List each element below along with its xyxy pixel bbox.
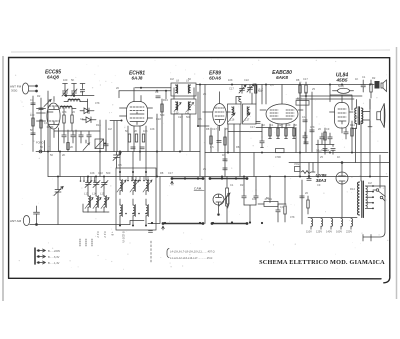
wire top bus upper [135, 85, 374, 88]
tube U2 ECH81 envelope [127, 102, 148, 127]
IF transformer T1 upper can [171, 79, 196, 97]
component value annotations [30, 75, 376, 219]
svg-text:C17: C17 [212, 127, 217, 131]
svg-text:C9: C9 [326, 127, 330, 131]
capacitor C32 [328, 133, 332, 144]
capacitor C27 [140, 147, 144, 149]
oscillator coil L14 [93, 196, 101, 213]
node dots mid bus [47, 151, 353, 154]
resistor R23 [142, 134, 144, 142]
svg-text:C17: C17 [168, 171, 173, 175]
tuning capacitor CV1 [54, 177, 63, 225]
capacitor C15 [361, 80, 365, 92]
svg-text:C1: C1 [270, 123, 274, 127]
svg-text:L1-L2-L12-L16-L13-L17.........: L1-L2-L12-L16-L13-L17.............15 Ω [170, 256, 212, 260]
svg-text:300Ω: 300Ω [11, 89, 17, 93]
node dots ground bus [57, 176, 371, 180]
capacitor C17 [310, 130, 314, 132]
svg-text:50Ω: 50Ω [297, 97, 302, 101]
svg-text:38A3: 38A3 [316, 178, 327, 183]
resistor R2 [40, 120, 42, 128]
resistor R5 [161, 104, 163, 112]
wire verticals right section [300, 85, 380, 189]
wire osc bottom rail [83, 204, 109, 212]
svg-text:R2: R2 [37, 94, 41, 98]
svg-text:B......6,3V: B......6,3V [48, 255, 60, 259]
resistor R8 [269, 128, 271, 136]
svg-text:0,1: 0,1 [280, 205, 284, 209]
wire bus ground [48, 176, 388, 178]
svg-text:C17: C17 [303, 77, 308, 81]
svg-text:47K: 47K [62, 110, 67, 114]
wire coil drops [72, 99, 88, 113]
tube U5 UL84 envelope [335, 103, 350, 129]
pin stubs U5 [330, 112, 354, 133]
volume control P2 [294, 162, 315, 174]
resistor R6 [210, 136, 212, 144]
capacitor C41 [260, 137, 264, 148]
svg-text:R2: R2 [240, 183, 244, 187]
svg-text:10K: 10K [143, 129, 148, 133]
svg-text:C1: C1 [362, 75, 366, 79]
wire switch bar 1a [171, 177, 205, 185]
svg-text:R8: R8 [206, 127, 210, 131]
tap choke 140V [326, 219, 333, 234]
svg-text:125V: 125V [316, 230, 322, 234]
tube label U5 UL84/45B5 [336, 73, 349, 83]
svg-text:0,1: 0,1 [80, 90, 84, 94]
trimmer C4 [44, 100, 51, 107]
loudspeaker [377, 104, 385, 128]
oscillator coil L15 [101, 196, 109, 213]
wire AM line segments [130, 177, 160, 225]
oval resistor R15 [333, 84, 354, 94]
svg-text:0,5: 0,5 [198, 117, 202, 121]
svg-text:C17: C17 [250, 125, 255, 129]
resistor R25 [227, 194, 229, 208]
svg-text:1K: 1K [337, 155, 340, 159]
resistor R11 [293, 128, 295, 136]
tube label U2 ECH81/6AJ8 [129, 71, 145, 81]
svg-text:2K: 2K [62, 153, 65, 157]
svg-text:5K: 5K [71, 78, 74, 82]
svg-text:R2: R2 [372, 76, 376, 80]
svg-text:140V: 140V [326, 230, 332, 234]
schematic border frame [9, 57, 390, 282]
svg-text:0,1: 0,1 [44, 121, 48, 125]
mains switch S1 [373, 186, 385, 199]
svg-text:500: 500 [160, 113, 165, 117]
capacitor C33 [323, 149, 327, 155]
svg-text:L14: L14 [92, 192, 97, 196]
capacitor C8c [87, 131, 91, 143]
svg-text:0,5: 0,5 [270, 83, 274, 87]
svg-text:R14: R14 [350, 123, 355, 127]
svg-text:10K: 10K [228, 78, 233, 82]
coil L6b [146, 199, 148, 226]
heater label column 3 [111, 232, 115, 236]
svg-text:47K: 47K [310, 125, 315, 129]
resistor R24 [307, 196, 309, 214]
coil labels L13 L14 L15 [84, 192, 105, 196]
tube label U4 EABC80/6AK8 [272, 70, 292, 80]
label CPM [194, 187, 202, 191]
svg-text:1K: 1K [355, 77, 358, 81]
svg-text:5K: 5K [266, 196, 269, 200]
svg-text:C9: C9 [155, 90, 159, 94]
svg-text:6AQ8: 6AQ8 [47, 75, 59, 80]
svg-text:C22: C22 [244, 78, 249, 82]
scan noise speckles [15, 59, 388, 270]
svg-text:100: 100 [286, 123, 291, 127]
terminal dots under ground bus right [127, 177, 149, 182]
trimmer C42 [83, 140, 90, 151]
svg-text:1M: 1M [356, 115, 360, 119]
tube label U6 UY85/38A3 [316, 173, 328, 183]
svg-text:C.P.M.: C.P.M. [194, 187, 202, 191]
trimmer C10 [239, 85, 246, 94]
tube label U3 EF89/6DA6 [209, 71, 221, 81]
page scan left edge [2, 56, 4, 301]
capacitor C8 [71, 131, 75, 143]
wire mid bus right [205, 152, 388, 154]
svg-text:C22: C22 [178, 115, 183, 119]
wire verticals ECH81 pins [128, 126, 146, 161]
phono jack [36, 141, 45, 152]
svg-text:FONO: FONO [36, 141, 44, 145]
top terminal stubs [63, 84, 85, 90]
wire verticals ECC85 to mid [100, 91, 146, 176]
wire vertical feeders left [33, 91, 76, 177]
svg-text:L15: L15 [100, 192, 105, 196]
tube U4 EABC80 envelope [266, 104, 298, 124]
capacitor C7 [62, 131, 66, 143]
resistor R1 [32, 118, 34, 126]
svg-text:47K: 47K [95, 101, 100, 105]
trimmer C11 [247, 84, 254, 93]
resistor R10 [285, 128, 287, 136]
capacitor C18 [304, 142, 308, 144]
tap choke 160V [336, 219, 343, 234]
tweeter speaker [381, 80, 387, 92]
capacitor C35 [300, 196, 304, 198]
resistor R18 cathode [351, 128, 353, 136]
germanium detector tube [213, 194, 224, 215]
wire top bus B+ [119, 90, 171, 92]
tube U3 EF89 envelope [213, 104, 227, 126]
oscillator trimmer C22 [101, 177, 108, 197]
oscillator trimmer C20 [85, 177, 92, 197]
svg-text:R8: R8 [296, 78, 300, 82]
svg-text:R14: R14 [96, 123, 101, 127]
page scan right edge [396, 47, 398, 299]
svg-text:6,3 V: 6,3 V [103, 232, 107, 238]
wire tone verticals [244, 177, 285, 224]
capacitor C23 [242, 190, 246, 205]
pin stubs U1 [37, 97, 59, 152]
svg-text:5K: 5K [294, 123, 297, 127]
svg-text:1M: 1M [108, 127, 112, 131]
resistor R12 [299, 82, 301, 96]
svg-text:6DA6: 6DA6 [209, 76, 221, 81]
wire bus heater [289, 162, 389, 164]
svg-text:B......1,4V: B......1,4V [48, 261, 60, 265]
svg-text:220V: 220V [346, 230, 352, 234]
svg-text:0,1: 0,1 [302, 115, 306, 119]
capacitor C40 [80, 90, 84, 96]
svg-text:5000: 5000 [338, 84, 344, 88]
svg-text:B......220V: B......220V [48, 249, 60, 253]
legend power arrows [35, 248, 60, 265]
wire mid bus left [36, 151, 200, 153]
wire AVC line [228, 131, 262, 133]
volume potentiometer P1 [219, 177, 230, 224]
svg-text:ANT AM: ANT AM [10, 219, 22, 223]
tube U1 ECC85 envelope [47, 103, 60, 129]
oscillator coil L13 [85, 196, 93, 213]
band coil box [116, 168, 156, 230]
diode D1 [80, 108, 94, 114]
coil L3 [60, 106, 72, 109]
coil L2 [64, 99, 88, 102]
tap choke 125V [316, 219, 323, 234]
mains cord [363, 186, 385, 241]
capacitor C30 [303, 132, 307, 143]
capacitor C26 [131, 147, 135, 149]
svg-text:45B5: 45B5 [336, 78, 348, 83]
svg-text:R8: R8 [236, 145, 240, 149]
svg-text:5K: 5K [30, 128, 33, 132]
coil L4b [120, 199, 122, 226]
svg-text:R14: R14 [163, 98, 168, 102]
svg-text:100: 100 [252, 197, 257, 201]
svg-text:160V: 160V [336, 230, 342, 234]
capacitor C31 [320, 133, 324, 144]
wire anode rail [54, 130, 100, 132]
pin stubs U2 [120, 88, 153, 118]
resistor R20 [284, 206, 286, 222]
svg-text:L4-L5-L6-L7-L8-L9-L10-L11.....: L4-L5-L6-L7-L8-L9-L10-L11........407 Ω [170, 250, 215, 254]
coil L6 with arrow [143, 172, 152, 195]
svg-text:B (220 V): B (220 V) [122, 232, 126, 243]
tube label U1 ECC85/6AQ8 [45, 70, 61, 80]
coil L5b [133, 199, 135, 226]
svg-text:1K: 1K [262, 123, 265, 127]
svg-text:10K: 10K [90, 171, 95, 175]
coil L5 with arrow [130, 172, 139, 195]
svg-text:470K: 470K [275, 155, 281, 159]
IF transformer T1 lower can [171, 99, 196, 115]
label cathode [316, 149, 330, 153]
resistor R3 [63, 108, 65, 131]
wire EABC80 bottom rail [256, 128, 296, 153]
capacitor C12 [255, 85, 257, 93]
box resistor R14 [296, 97, 309, 106]
wire top right segment [296, 96, 362, 99]
terminal tick columns [80, 239, 92, 247]
box terminal dots row [119, 213, 147, 215]
ground ticks under EABC80 [269, 138, 296, 140]
resistor R9 [277, 128, 279, 136]
svg-text:0,5: 0,5 [118, 163, 122, 167]
tube U6 UY85 rectifier envelope [336, 162, 348, 184]
svg-text:R2: R2 [278, 123, 282, 127]
svg-text:500: 500 [106, 171, 111, 175]
tap choke 110V [306, 219, 313, 234]
coil L4 with arrow [117, 172, 126, 195]
wire cathode rail [316, 128, 356, 163]
heater label column 1 [96, 232, 100, 238]
node dots top bus [140, 84, 371, 98]
svg-text:6AK8: 6AK8 [276, 75, 288, 80]
capacitor C13 [217, 141, 221, 143]
node dots box terminals [119, 171, 147, 227]
output transformer T2 [355, 107, 363, 125]
svg-text:C17: C17 [229, 87, 234, 91]
capacitor C25 [276, 204, 280, 222]
svg-text:+ B: + B [111, 232, 115, 236]
svg-text:100: 100 [63, 78, 68, 82]
svg-text:6,3 V: 6,3 V [96, 232, 100, 238]
box resistor R19 [258, 197, 286, 207]
svg-text:ANT FM: ANT FM [10, 85, 22, 89]
coupling coil L12 [229, 87, 263, 105]
trimmer CV2 [113, 152, 121, 169]
pin stubs U4 [260, 110, 303, 128]
svg-text:VOL.: VOL. [294, 162, 300, 166]
svg-text:6AJ8: 6AJ8 [132, 76, 143, 81]
power transformer T3 primary [358, 181, 364, 218]
wire verticals IF1 region [157, 88, 194, 176]
wire switch bar 2b [211, 222, 249, 225]
svg-text:C22: C22 [98, 171, 103, 175]
node dots AM row [151, 221, 263, 224]
svg-text:0,5: 0,5 [210, 145, 214, 149]
svg-text:L17: L17 [245, 118, 250, 122]
resistor R17 [324, 132, 326, 140]
svg-text:L11: L11 [185, 111, 190, 115]
power transformer T3 secondary taps [366, 185, 374, 209]
svg-text:2K: 2K [70, 145, 73, 149]
svg-text:2K: 2K [134, 129, 137, 133]
svg-text:C1: C1 [30, 98, 34, 102]
wire switch bar 2a [162, 222, 205, 230]
capacitor C19 [344, 128, 348, 139]
svg-text:L16: L16 [230, 118, 235, 122]
svg-text:500: 500 [186, 115, 191, 119]
resistor R27 [67, 143, 69, 150]
pin stubs U3 [198, 92, 230, 131]
title SCHEMA ELETTRICO MOD. GIAMAICA [259, 259, 385, 266]
trimmer C6 [71, 89, 77, 96]
wire grid rail [64, 95, 94, 97]
antenna ANT FM [10, 83, 38, 94]
capacitor C34 [331, 149, 335, 155]
rail label column [122, 232, 126, 243]
svg-text:10K: 10K [150, 127, 155, 131]
box resistor R26 [275, 149, 284, 160]
svg-text:C1: C1 [230, 183, 234, 187]
svg-text:R14: R14 [350, 187, 355, 191]
resistor R22 [135, 134, 137, 142]
capacitor C16 [303, 120, 307, 122]
svg-text:1M: 1M [368, 181, 372, 185]
ratio detector box [95, 139, 106, 149]
svg-text:110V: 110V [306, 230, 312, 234]
capacitor C29 [223, 168, 227, 170]
oscillator trimmer C21 [93, 177, 100, 197]
capacitor C2 [31, 133, 35, 135]
svg-text:2K: 2K [203, 92, 206, 96]
svg-text:C22: C22 [156, 117, 161, 121]
capacitor C14 [256, 122, 260, 124]
svg-text:R8: R8 [160, 171, 164, 175]
page scan top edge [11, 50, 390, 52]
IF transformer T2 can L17 [243, 104, 257, 124]
IF transformer T2 can L16 [228, 104, 242, 124]
wire rectifier drop [302, 163, 342, 225]
capacitor C9 [156, 96, 160, 98]
svg-text:L13: L13 [84, 192, 89, 196]
svg-text:L10: L10 [174, 111, 179, 115]
svg-text:1M: 1M [170, 77, 174, 81]
dial lamp marks [149, 231, 153, 263]
resistor R7 [224, 137, 226, 145]
svg-text:1K: 1K [222, 153, 225, 157]
resistor R4 [71, 108, 73, 131]
trimmer C5 [62, 89, 68, 96]
wire switch bar 1b [209, 177, 249, 180]
terminal dots under ground bus left [80, 177, 96, 182]
svg-text:500: 500 [258, 89, 263, 93]
voltage tap rail [308, 217, 357, 219]
capacitor C3 [39, 108, 43, 110]
resistor R21 [128, 134, 130, 142]
wire verticals IF2 EF89 [228, 93, 256, 177]
svg-text:C9: C9 [80, 117, 84, 121]
capacitor C1 [31, 103, 35, 105]
filter choke block [375, 81, 380, 89]
wire verticals mid [200, 85, 225, 224]
capacitor C24 [254, 190, 258, 205]
diode D2 [82, 117, 96, 123]
wire speaker connect [352, 100, 372, 129]
capacitor C43 [104, 140, 108, 152]
antenna ANT AM [10, 206, 130, 226]
tap choke 220V [346, 219, 353, 234]
wire verticals EABC80 [262, 85, 294, 139]
svg-text:C9: C9 [317, 183, 321, 187]
resistor R16 [370, 80, 372, 98]
heater label column 2 [103, 232, 107, 238]
svg-text:47K: 47K [290, 215, 295, 219]
capacitor C28 [223, 159, 227, 161]
resistor R13 [305, 82, 307, 96]
svg-text:SCHEMA ELETTRICO MOD. GIAMAICA: SCHEMA ELETTRICO MOD. GIAMAICA [259, 259, 385, 266]
coil resistance notes [167, 249, 215, 260]
capacitor C36 [307, 176, 311, 181]
capacitor C8b [79, 131, 83, 143]
